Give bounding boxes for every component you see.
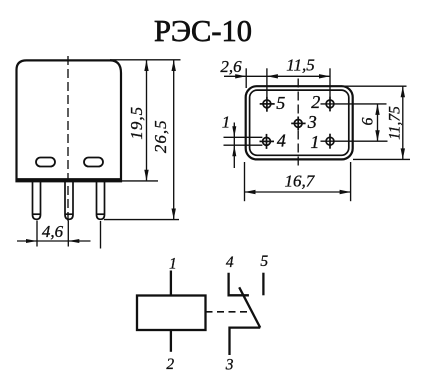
svg-text:11,75: 11,75 <box>387 106 404 140</box>
extension line pin B (dim 4,6) <box>67 221 69 247</box>
arrow 11,5 left <box>267 74 278 78</box>
slot left <box>36 158 55 167</box>
relay base inner outline (top view) <box>250 90 349 155</box>
relay base outer outline (top view) <box>246 86 353 159</box>
armature (movable contact) <box>239 287 260 327</box>
mechanical link (dashed) coil to armature <box>206 311 251 313</box>
hole 1 <box>326 134 334 149</box>
svg-text:1: 1 <box>222 113 231 132</box>
extension line hole 1 row (dim 6) <box>321 140 388 142</box>
svg-text:2: 2 <box>311 92 320 112</box>
relay body outline (side view) <box>17 60 122 181</box>
arrow 6 bottom <box>375 130 379 141</box>
svg-text:2: 2 <box>166 356 174 373</box>
contact pin 4 lead <box>229 273 249 296</box>
svg-text:4: 4 <box>226 254 234 271</box>
arrow 11,5 right <box>319 74 330 78</box>
extension line hole 2 column <box>329 68 331 96</box>
extension line body bottom (dim 19,5) <box>121 180 158 182</box>
svg-text:2,6: 2,6 <box>220 57 242 76</box>
svg-text:3: 3 <box>307 112 317 132</box>
svg-text:1: 1 <box>169 256 177 273</box>
svg-text:11,5: 11,5 <box>286 55 315 74</box>
svg-text:4: 4 <box>277 131 286 151</box>
hole 3 <box>291 117 305 131</box>
dimension line 19,5 <box>146 60 148 181</box>
extension line body left edge (dim 2,6) <box>245 68 247 88</box>
svg-text:РЭС-10: РЭС-10 <box>154 14 252 48</box>
arrow 26,5 bottom <box>172 209 176 220</box>
arrow 4,6 right <box>68 239 79 243</box>
extension line hole 5 column <box>266 68 268 96</box>
extension line body right edge bottom (dim 16,7) <box>350 162 352 201</box>
pin B (middle, side view) <box>65 181 73 219</box>
extension line body bottom edge right (dim 11,75) <box>353 158 410 160</box>
arrow 11,75 bottom <box>401 148 405 159</box>
hole 4 lower tangent line (dim 1) <box>224 144 263 146</box>
relay coil (schematic) <box>137 296 206 331</box>
pin C centerline tail <box>100 221 102 249</box>
svg-text:16,7: 16,7 <box>285 171 316 190</box>
dimension line 4,6 <box>17 240 91 242</box>
svg-text:5: 5 <box>276 93 285 113</box>
svg-text:6: 6 <box>360 118 377 126</box>
svg-text:5: 5 <box>260 253 268 270</box>
extension line body top edge right (dim 11,75) <box>342 85 407 87</box>
centerline vertical (top view, dashed) <box>297 79 299 169</box>
arrow 11,75 top <box>401 86 405 97</box>
svg-text:19,5: 19,5 <box>127 106 146 140</box>
svg-text:26,5: 26,5 <box>151 119 170 153</box>
relay body bottom edge (thick) <box>16 178 123 181</box>
hole 5 <box>260 97 275 112</box>
dimension line 11,75 <box>402 86 404 159</box>
slot right <box>84 158 103 167</box>
dimension line 16,7 <box>245 191 351 193</box>
extension line body left edge bottom (dim 16,7) <box>244 162 246 201</box>
svg-text:4,6: 4,6 <box>42 222 64 241</box>
centerline (side view, dashed) <box>67 56 69 221</box>
arrow dim 1 upper <box>232 126 236 137</box>
coil lead pin 2 <box>170 330 172 352</box>
svg-text:1: 1 <box>310 132 319 152</box>
extension line pin tips (dim 26,5) <box>104 219 179 221</box>
contact pin 3 lead <box>230 328 261 355</box>
arrow 6 top <box>375 104 379 115</box>
dimension line 2,6 and 11,5 <box>224 75 330 77</box>
svg-text:3: 3 <box>225 357 234 374</box>
pin C (right, side view) <box>97 181 105 219</box>
dimension line 26,5 <box>173 60 175 220</box>
dimension line 6 <box>377 104 379 141</box>
dimension line 1 (vertical) <box>233 123 235 169</box>
extension line top (side view dims) <box>110 59 181 61</box>
arrow dim 1 lower <box>232 145 236 156</box>
pin A (left, side view) <box>33 181 41 219</box>
arrow 19,5 bottom <box>144 170 148 181</box>
extension line pin A (dim 4,6) <box>36 221 38 247</box>
coil lead pin 1 <box>170 271 172 296</box>
hole 4 upper tangent line (dim 1) <box>224 136 263 138</box>
contact pin 5 lead <box>262 273 264 296</box>
arrow 16,7 left <box>245 190 256 194</box>
arrow 19,5 top <box>144 60 148 71</box>
extension line hole 2 row (dim 6) <box>321 103 387 105</box>
arrow 26,5 top <box>172 60 176 71</box>
arrow 2,6 left <box>235 74 246 78</box>
hole 4 <box>260 134 275 149</box>
arrow 16,7 right <box>340 190 351 194</box>
hole 2 <box>326 96 334 111</box>
arrow 4,6 left <box>26 239 37 243</box>
